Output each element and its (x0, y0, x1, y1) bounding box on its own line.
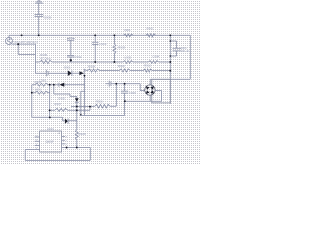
svg-text:C903: C903 (99, 42, 107, 46)
svg-text:C902: C902 (74, 55, 82, 59)
svg-text:R909: R909 (35, 80, 42, 84)
svg-text:R908: R908 (79, 132, 87, 136)
opto collector branch (81, 91, 85, 115)
row 106 wire (71, 84, 116, 111)
row 117 wire (32, 117, 65, 120)
parallel resistor Rb (35, 91, 48, 94)
svg-text:U901: U901 (47, 127, 54, 131)
resistor R903 (113, 35, 116, 62)
svg-text:L901: L901 (124, 28, 131, 32)
row wire (99, 69, 170, 71)
output box (152, 79, 171, 103)
node dot source (17, 43, 19, 45)
resistor R901 (146, 34, 156, 37)
right column x170 (169, 35, 171, 104)
diode D901 (68, 70, 72, 76)
IC right pins (62, 137, 91, 148)
capacitor C901 (35, 70, 67, 77)
top rail wire (9, 34, 190, 36)
capacitor C906 (121, 84, 128, 116)
diode D903 feedback (50, 83, 59, 87)
resistor R906 (95, 104, 110, 108)
svg-text:R902: R902 (118, 64, 126, 68)
row 115.5 wire (80, 115, 125, 117)
resistor R908 (75, 130, 78, 148)
parallel resistor Ra (35, 83, 48, 86)
ground (35, 1, 43, 15)
bracket wires (32, 85, 50, 118)
IC U901 (40, 131, 62, 152)
svg-text:D902: D902 (58, 97, 65, 101)
svg-text:L904: L904 (153, 55, 160, 59)
capacitor C907 (170, 41, 181, 56)
right rail wire (150, 35, 190, 79)
resistor R904 (88, 69, 100, 72)
IC left pins (35, 137, 40, 150)
svg-text:C905: C905 (44, 15, 52, 19)
transistor Q901 (79, 69, 87, 76)
svg-text:1K91: 1K91 (35, 87, 42, 91)
capacitor C902 (67, 38, 75, 62)
opto LED branch (54, 85, 77, 99)
inductor L902 on rail (123, 61, 133, 64)
svg-text:R906: R906 (96, 99, 104, 103)
bridge leads (150, 79, 161, 101)
Q901 collector vertical (84, 75, 86, 115)
svg-text:L902: L902 (125, 56, 132, 60)
bridge X circle (145, 85, 155, 95)
resistor R902 (120, 69, 131, 72)
svg-text:R910: R910 (144, 64, 152, 68)
capacitor C903 (92, 35, 99, 62)
svg-text:R907: R907 (54, 102, 61, 106)
inductor L901 (124, 34, 134, 37)
svg-text:R904: R904 (88, 64, 96, 68)
capacitor C905 (35, 15, 44, 36)
snubber wire y83.7 (106, 81, 145, 91)
diode D902 down (75, 98, 79, 129)
inductor L904 on rail (148, 61, 158, 64)
svg-text:(CO-267 1A0 Gry): (CO-267 1A0 Gry) (14, 40, 37, 44)
svg-text:47 Ohm: 47 Ohm (40, 57, 51, 61)
svg-text:DK9F: DK9F (46, 140, 54, 144)
wire to bridge bottom (125, 95, 162, 101)
IC ground loop wire (25, 148, 90, 161)
row 110 wire R907 (50, 109, 90, 111)
svg-text:C906: C906 (129, 91, 137, 95)
svg-text:400 uF: 400 uF (180, 49, 189, 53)
resistor R910 (144, 69, 153, 72)
svg-text:R903: R903 (118, 46, 126, 50)
junction dots (21, 34, 172, 148)
svg-text:R901: R901 (147, 26, 155, 30)
svg-text:D901: D901 (64, 65, 71, 69)
DC source BT901 (6, 35, 36, 73)
mid rail wire (35, 61, 170, 63)
diode D904 (65, 118, 77, 124)
resistor R905 (40, 60, 52, 63)
